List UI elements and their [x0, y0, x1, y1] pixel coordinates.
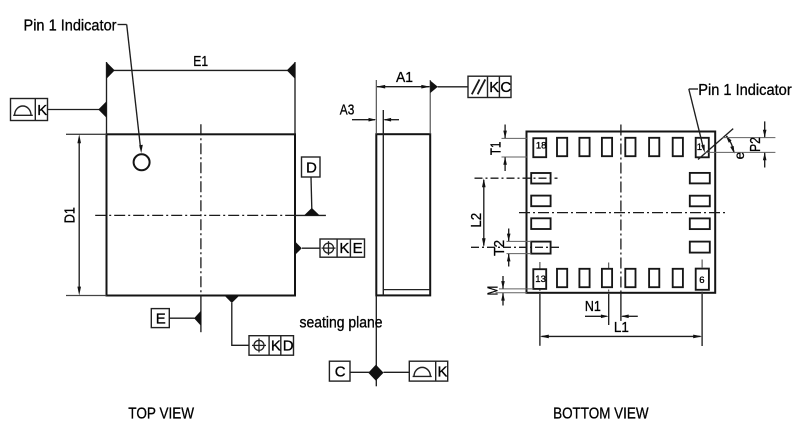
dimension N1 arrows: [585, 315, 638, 319]
svg-text:D: D: [283, 337, 294, 354]
dimension L2 line and arrowheads: [482, 178, 486, 247]
svg-text:T2: T2: [491, 240, 508, 256]
left column pad row 4: [531, 242, 550, 254]
bottom row pad 10: [602, 269, 612, 287]
left column pad row 1: [531, 173, 550, 184]
profile-of-surface K frame (right of diamond): [384, 361, 448, 381]
svg-text:D1: D1: [62, 207, 79, 223]
svg-text:6: 6: [699, 275, 704, 286]
svg-text:M: M: [485, 286, 502, 296]
centerline through left pad row1 (L2 top extension): [475, 177, 558, 179]
dimension M extension lines: [496, 289, 534, 293]
bottom row pad 8: [649, 269, 659, 287]
svg-text:P2: P2: [747, 137, 764, 152]
dimension T2 label: [491, 240, 508, 256]
leader from datum triangle to parallelism frame: [438, 86, 468, 88]
svg-text:TOP VIEW: TOP VIEW: [128, 406, 195, 423]
pin 1 indicator label (bottom view): [698, 82, 792, 99]
svg-text:C: C: [500, 79, 511, 96]
position K E feature control frame (top view right): [320, 239, 365, 257]
svg-text:K: K: [438, 364, 448, 381]
pad 1 (bottom view top-right corner): [696, 138, 709, 158]
bottom row pad 12: [557, 269, 567, 287]
dimension D1 extension lines: [66, 134, 107, 295]
dimension L1 label: [614, 319, 629, 336]
datum E box: [151, 309, 169, 328]
dimension L1 line and arrowheads: [540, 335, 702, 339]
bottom view package body outline: [527, 132, 716, 293]
svg-text:L2: L2: [468, 213, 485, 228]
side view body outline: [376, 134, 430, 295]
svg-text:Pin 1 Indicator: Pin 1 Indicator: [698, 82, 792, 99]
svg-text:E1: E1: [193, 53, 208, 70]
svg-text:A3: A3: [340, 102, 355, 119]
pitch e angular arc with arrowheads: [726, 135, 735, 154]
seating plane label: [300, 315, 383, 332]
leader from E box to vertical centerline with datum triangle: [169, 311, 201, 326]
datum C diamond on seating plane line: [368, 365, 383, 381]
bottom row pad 11: [579, 269, 589, 287]
dimension T1 extension lines: [502, 138, 528, 157]
svg-text:13: 13: [535, 274, 546, 285]
dimension P2 arrows: [763, 121, 767, 167]
leader from D box to horizontal centerline with datum triangle: [304, 177, 320, 215]
right column pad row 2: [690, 196, 710, 207]
dimension P2 extension lines: [705, 138, 775, 153]
pin 1 indicator leader (top view): [118, 25, 143, 154]
svg-text:K: K: [271, 337, 281, 354]
svg-text:D: D: [306, 160, 317, 177]
dimension D1 line and arrowheads: [77, 134, 81, 295]
pad 18 (bottom view top-left corner): [533, 138, 546, 157]
svg-text:K: K: [37, 102, 47, 119]
datum D box: [302, 157, 321, 177]
side view inner horizontal line (body bottom): [383, 289, 430, 291]
top row pad 22: [625, 138, 635, 156]
pin 1 indicator circle: [134, 154, 150, 170]
dimension T1 label: [487, 142, 504, 156]
top row pad 21: [602, 138, 612, 156]
seating plane datum line below side view: [375, 295, 377, 386]
svg-text:N1: N1: [585, 298, 601, 315]
svg-text:18: 18: [536, 141, 547, 152]
left column pad row 2: [531, 196, 550, 207]
dimension D1 label: [62, 207, 79, 223]
top row pad 19: [557, 138, 567, 156]
dimension N1 label: [585, 298, 601, 315]
svg-text:T1: T1: [487, 142, 504, 156]
bottom row pad 9: [625, 269, 635, 287]
dimension P2 label: [747, 137, 764, 152]
pin 1 indicator leader (bottom view): [689, 89, 705, 153]
top view vertical centerline: [200, 124, 202, 332]
svg-text:L1: L1: [614, 319, 629, 336]
leader from position KE frame to right edge with datum triangle: [295, 241, 320, 255]
svg-text:E: E: [156, 311, 166, 328]
centerline through left pad row4 (L2 bottom / T2 extension): [471, 246, 559, 248]
datum triangle on right extension line (side view): [430, 81, 438, 94]
bottom row pad 7: [673, 269, 683, 287]
dimension E1 label: [193, 53, 208, 70]
svg-text:K: K: [489, 79, 499, 96]
dimension T1 arrows: [503, 125, 507, 172]
centerline through bottom pad 4 (N1 extension): [608, 263, 610, 326]
svg-text:seating plane: seating plane: [300, 315, 383, 332]
dimension A1 line and arrowheads: [376, 85, 430, 89]
top view horizontal centerline: [95, 214, 326, 216]
left column pad row 3: [531, 218, 550, 229]
profile-of-surface K frame (top view left): [11, 99, 48, 121]
dimension M arrows: [501, 276, 505, 306]
dimension E1 line and arrowheads: [107, 62, 296, 79]
pad 6 (bottom view bottom-right corner): [696, 269, 709, 290]
bottom view vertical centerline: [620, 125, 622, 321]
svg-text:Pin 1 Indicator: Pin 1 Indicator: [24, 17, 118, 34]
bottom view horizontal centerline: [519, 212, 726, 214]
parallelism K C feature control frame: [468, 76, 511, 97]
dimension A1 extension lines: [376, 80, 430, 134]
dimension L2 label: [468, 213, 485, 228]
centerline through pad 6 (L1 right extension): [701, 260, 703, 347]
leader from bottom edge datum triangle to position KD frame: [232, 303, 249, 346]
top row pad 24: [673, 138, 683, 156]
top row pad 20: [579, 138, 589, 156]
dimension A3 arrows: [352, 118, 399, 122]
right column pad row 1: [690, 173, 710, 184]
dimension E1 extension lines: [107, 62, 296, 134]
right column pad row 3: [690, 218, 710, 229]
datum triangle on bottom edge of top view: [224, 296, 239, 304]
svg-text:C: C: [335, 364, 346, 381]
centerline through pad 13 (L1 left extension): [539, 262, 541, 346]
side view inner vertical line (lead plane): [382, 110, 384, 295]
dimension T2 extension lines: [507, 241, 532, 253]
svg-text:K: K: [339, 240, 349, 257]
svg-text:e: e: [732, 152, 747, 160]
pin 1 indicator label (top view): [24, 17, 118, 34]
dimension A1 label: [396, 69, 413, 86]
datum C box: [329, 361, 369, 381]
svg-text:1: 1: [697, 142, 702, 153]
svg-text:BOTTOM VIEW: BOTTOM VIEW: [553, 406, 649, 423]
leader from profile K frame to E1 extension line with datum triangle: [48, 101, 107, 117]
dimension e label: [732, 152, 747, 160]
top row pad 23: [649, 138, 659, 156]
top view package body outline: [107, 134, 296, 295]
right column pad row 4: [690, 242, 710, 253]
dimension A3 label: [340, 102, 355, 119]
BOTTOM VIEW caption: [553, 406, 649, 423]
dimension M label: [485, 286, 502, 296]
svg-text:A1: A1: [396, 69, 413, 86]
pad 13 (bottom view bottom-left corner): [533, 269, 546, 289]
pin 1 chamfer diagonal line: [698, 129, 733, 160]
position K D feature control frame (below top view): [249, 336, 294, 356]
TOP VIEW caption: [128, 406, 195, 423]
dimension T2 arrows: [507, 229, 511, 267]
svg-text:E: E: [353, 240, 363, 257]
